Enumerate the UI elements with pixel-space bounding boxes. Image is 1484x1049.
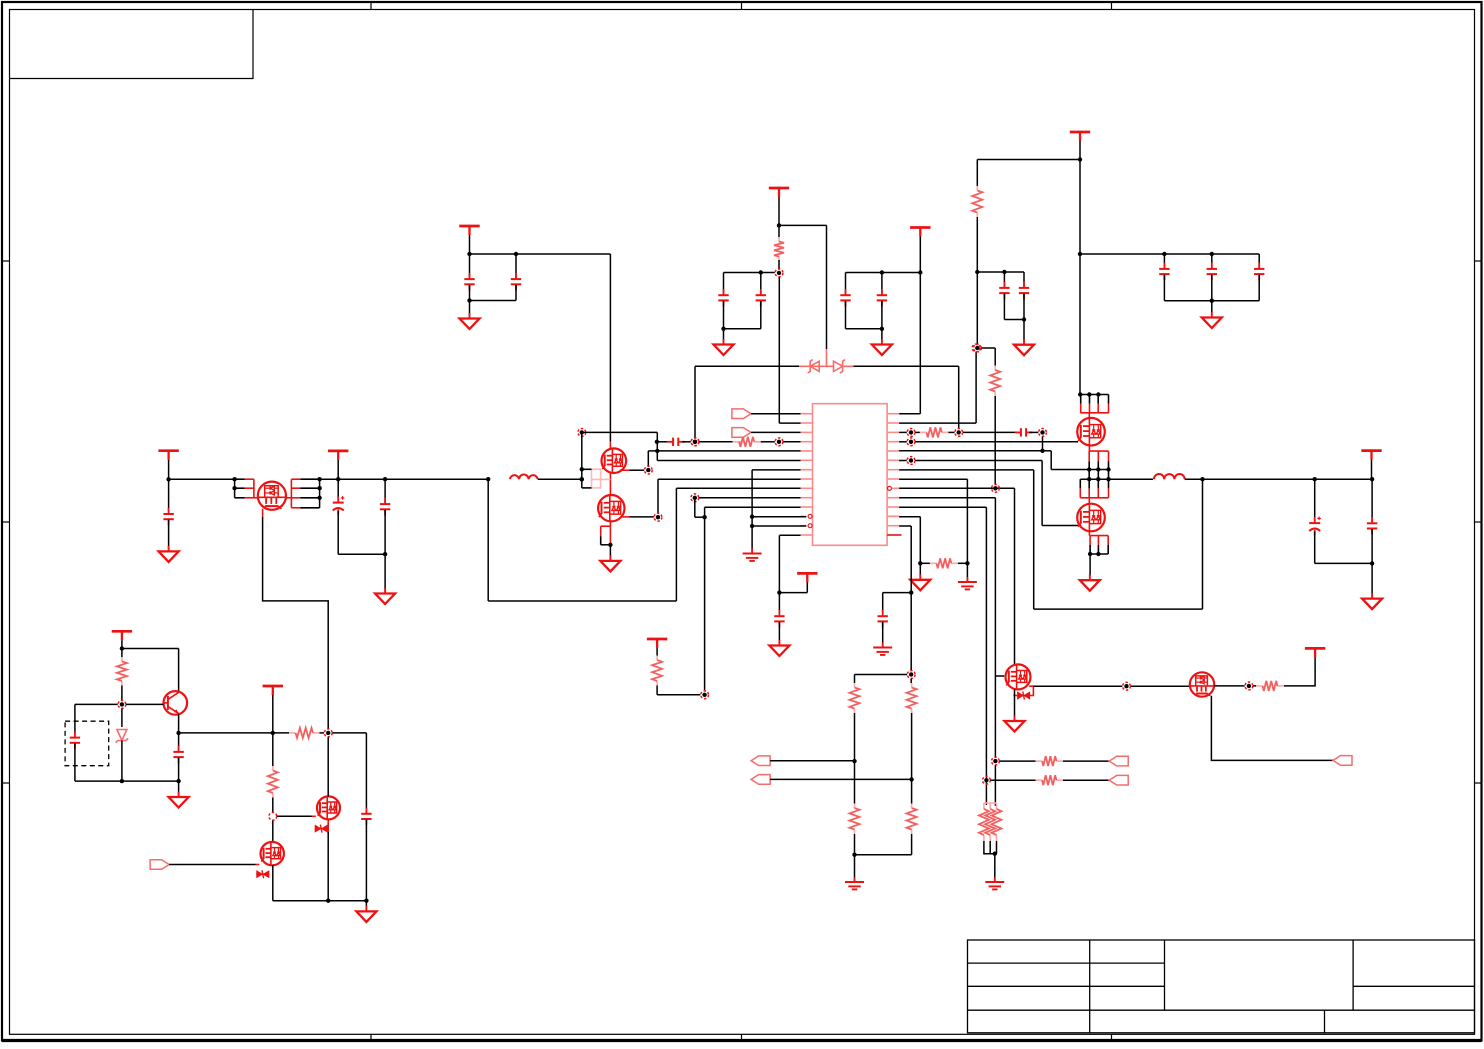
junction xyxy=(975,270,979,274)
resistor R3 xyxy=(994,366,996,371)
stack top tie xyxy=(984,802,997,804)
wire xyxy=(337,511,339,554)
capacitor C16 (polarized) xyxy=(333,496,345,515)
junction xyxy=(1370,477,1374,481)
junction xyxy=(1040,449,1044,453)
wire xyxy=(723,273,725,295)
wire xyxy=(630,469,645,471)
port E xyxy=(1333,756,1352,766)
junction xyxy=(909,590,913,594)
sense pack below Q7 xyxy=(609,521,611,526)
capacitor C1 xyxy=(464,273,474,291)
wire xyxy=(778,260,780,269)
resistor R17 xyxy=(272,766,274,771)
ground xyxy=(600,555,620,571)
capacitor bulk xyxy=(1207,263,1217,281)
wire xyxy=(1371,460,1373,480)
capacitor C15 xyxy=(163,508,173,526)
wire xyxy=(272,865,274,900)
node xyxy=(578,429,586,437)
wire xyxy=(1202,479,1204,609)
node xyxy=(983,776,991,784)
wire xyxy=(469,254,471,279)
op-amp controller IC U1 xyxy=(813,404,888,546)
power symbol VREG xyxy=(910,228,930,237)
junction xyxy=(467,252,471,256)
wire xyxy=(948,431,954,433)
ground xyxy=(375,588,395,604)
junction xyxy=(326,899,330,903)
power symbol VAUX xyxy=(797,573,817,582)
wire xyxy=(958,366,960,428)
IC pin stubs xyxy=(801,413,813,415)
wire xyxy=(1063,779,1109,781)
port D xyxy=(1109,775,1128,785)
power symbol VOUT xyxy=(1361,451,1381,460)
wire xyxy=(899,441,907,443)
wire xyxy=(1284,657,1315,686)
wire xyxy=(470,253,611,255)
junction xyxy=(1162,252,1166,256)
ground xyxy=(1202,312,1222,328)
node xyxy=(644,466,652,474)
wire xyxy=(919,237,921,414)
resistor R13 xyxy=(1036,779,1043,781)
wire xyxy=(1043,450,1052,452)
wire xyxy=(657,479,659,513)
wire pin3 xyxy=(751,431,800,433)
resistor R8 xyxy=(854,683,856,688)
wire xyxy=(601,544,611,546)
wire xyxy=(179,732,273,734)
node xyxy=(701,691,709,699)
wire pin4r to Q1 gate xyxy=(915,441,1078,443)
sense pack below Q1 xyxy=(1088,446,1090,452)
wire pin14 xyxy=(779,534,800,536)
node xyxy=(118,701,126,709)
wire xyxy=(1080,394,1108,396)
junction xyxy=(1096,467,1100,471)
node xyxy=(972,344,980,352)
junction xyxy=(655,449,659,453)
wire xyxy=(1063,760,1109,762)
wire xyxy=(75,703,118,705)
wire xyxy=(1258,275,1260,301)
wire xyxy=(779,224,827,226)
wire xyxy=(168,460,170,511)
wire xyxy=(338,553,385,555)
capacitor C5 xyxy=(840,289,850,307)
junction xyxy=(580,467,584,471)
wire emitter xyxy=(178,714,180,733)
wire xyxy=(779,592,807,594)
wire xyxy=(272,733,274,766)
wire xyxy=(122,648,179,650)
wire xyxy=(783,441,800,443)
power symbol VCC1 xyxy=(459,226,479,235)
junction xyxy=(1078,392,1082,396)
earth ground xyxy=(958,577,977,589)
wire xyxy=(958,562,968,564)
wire xyxy=(966,479,968,563)
wire xyxy=(1004,319,1024,321)
transistor Q6 xyxy=(602,448,627,473)
wire pin6r xyxy=(915,460,1042,462)
junction xyxy=(467,298,471,302)
wire return loop xyxy=(488,600,676,602)
wire xyxy=(365,901,367,908)
wire xyxy=(582,431,658,433)
wire xyxy=(1029,431,1038,433)
junction xyxy=(750,524,754,528)
wire xyxy=(919,517,921,576)
output port A xyxy=(751,756,770,766)
wire xyxy=(761,441,775,443)
junction xyxy=(1078,252,1082,256)
wire xyxy=(778,277,780,423)
wire xyxy=(384,479,386,504)
wire xyxy=(319,479,321,508)
wire xyxy=(337,460,339,479)
wire output rail xyxy=(1185,478,1372,480)
ground xyxy=(159,546,179,562)
wire xyxy=(178,733,180,752)
wire pin13r xyxy=(899,525,911,527)
wire xyxy=(845,301,847,329)
title block xyxy=(968,940,1475,1033)
junction xyxy=(1022,317,1026,321)
wire xyxy=(168,520,170,548)
wire xyxy=(1003,272,1005,288)
wire pin7 xyxy=(752,469,800,471)
capacitor C18 xyxy=(70,731,80,749)
wire xyxy=(469,285,471,301)
wire pin11r xyxy=(899,506,986,508)
node xyxy=(992,757,1000,765)
transistor Q7 xyxy=(598,495,624,521)
wire xyxy=(384,510,386,590)
wire xyxy=(121,741,123,782)
wire xyxy=(515,254,517,279)
power symbol VIN xyxy=(1070,132,1090,141)
junction xyxy=(702,515,706,519)
zener ZD3 xyxy=(256,870,269,878)
wire xyxy=(963,431,1018,433)
wire xyxy=(695,365,799,367)
junction xyxy=(1200,477,1204,481)
wire xyxy=(911,779,913,803)
transistor Q10 xyxy=(261,842,284,865)
wire xyxy=(1023,320,1025,342)
wire xyxy=(854,365,959,367)
resistor R4 xyxy=(733,441,740,443)
wire xyxy=(994,765,996,806)
wire xyxy=(1003,294,1005,320)
transistor Q2 (low side) xyxy=(1077,504,1105,532)
wire xyxy=(656,686,658,695)
wire xyxy=(1371,479,1373,523)
wire xyxy=(999,760,1035,762)
wire xyxy=(699,441,732,443)
wire xyxy=(272,821,274,843)
junction xyxy=(514,252,518,256)
wire xyxy=(1033,685,1122,687)
transistor Q4 xyxy=(1190,672,1214,696)
wire xyxy=(806,578,808,593)
wire xyxy=(1163,254,1165,269)
wire xyxy=(1315,562,1372,564)
node xyxy=(775,438,783,446)
wire xyxy=(994,498,996,757)
wire xyxy=(178,758,180,781)
wire pin5r xyxy=(899,450,1042,452)
junction xyxy=(1106,467,1110,471)
wire pin9 xyxy=(676,487,800,489)
node xyxy=(907,457,915,465)
wire xyxy=(320,732,325,734)
node xyxy=(775,269,783,277)
wire switch node xyxy=(1080,478,1153,480)
wire xyxy=(990,779,1035,781)
wire xyxy=(609,473,611,495)
wire xyxy=(1023,272,1025,288)
wire xyxy=(538,478,582,480)
wire pin2r xyxy=(899,422,976,424)
wire xyxy=(469,235,471,254)
wire to Q2 gate xyxy=(1042,525,1078,527)
node xyxy=(1245,682,1253,690)
ground xyxy=(769,640,789,656)
wire xyxy=(911,713,913,779)
wire switch-node upper xyxy=(1051,469,1108,471)
earth ground xyxy=(845,877,864,889)
junction xyxy=(336,477,340,481)
wire xyxy=(770,760,854,762)
power symbol VG xyxy=(263,686,283,695)
junction xyxy=(608,543,612,547)
capacitor C6 xyxy=(877,289,887,307)
wire xyxy=(630,516,654,518)
wire xyxy=(826,225,828,349)
resistor R15 xyxy=(121,657,123,662)
node xyxy=(992,484,1000,492)
wire xyxy=(1371,529,1373,594)
wire xyxy=(515,285,517,301)
wire Q9 drain xyxy=(327,737,329,796)
wire xyxy=(1314,532,1316,564)
input port 1 xyxy=(732,409,751,419)
wire pin1 xyxy=(751,413,800,415)
node xyxy=(269,812,277,820)
earth ground xyxy=(985,877,1004,889)
wire xyxy=(647,451,649,466)
wire xyxy=(1163,275,1165,301)
junction xyxy=(880,327,884,331)
junction xyxy=(1210,252,1214,256)
junction xyxy=(1313,477,1317,481)
thick bottom border xyxy=(2,1039,1482,1042)
wire xyxy=(910,679,912,683)
transistor Q3 xyxy=(1006,664,1031,689)
capacitor C11 xyxy=(1015,428,1033,436)
wire xyxy=(657,441,669,443)
wire pin12r xyxy=(899,516,920,518)
node xyxy=(1123,682,1131,690)
junction xyxy=(880,270,884,274)
wire xyxy=(365,733,367,810)
wire xyxy=(1258,254,1260,269)
node xyxy=(907,438,915,446)
wire xyxy=(760,273,762,295)
wire bulk caps rail xyxy=(1080,253,1259,255)
resistor R1 xyxy=(778,237,780,242)
wire xyxy=(1050,451,1052,470)
Q7 source lead xyxy=(623,516,630,518)
wire xyxy=(657,694,700,696)
junction xyxy=(166,477,170,481)
wire xyxy=(882,593,884,613)
junction xyxy=(1087,467,1091,471)
input port 2 xyxy=(732,428,751,438)
wire xyxy=(277,815,312,817)
wire xyxy=(365,820,367,901)
capacitor C7 xyxy=(999,282,1009,300)
Q3 source link xyxy=(1029,686,1033,695)
wire xyxy=(854,761,856,803)
transistor Q9 xyxy=(317,796,340,819)
wire xyxy=(881,301,883,329)
wire xyxy=(169,478,235,480)
junction xyxy=(1106,477,1110,481)
border zone ticks xyxy=(370,2,372,10)
junction xyxy=(486,477,490,481)
wire input rail xyxy=(320,478,489,480)
wire xyxy=(855,674,908,676)
capacitor C3 xyxy=(718,289,728,307)
wire pin8r xyxy=(899,478,967,480)
Q9 source lead xyxy=(327,819,329,832)
capacitor bulk xyxy=(1159,263,1169,281)
junction xyxy=(232,477,236,481)
wire xyxy=(911,834,913,855)
earth ground xyxy=(743,549,762,561)
wire xyxy=(854,855,856,878)
wire pin10r xyxy=(899,497,995,499)
wire xyxy=(778,197,780,237)
wire xyxy=(178,781,180,793)
node xyxy=(691,438,699,446)
ground xyxy=(910,574,930,590)
wire xyxy=(1014,689,1016,717)
wire pin10 xyxy=(699,497,801,499)
earth ground xyxy=(873,643,892,655)
wire pin5 xyxy=(648,450,800,452)
capacitor C12 xyxy=(878,610,888,628)
wire pin1 right xyxy=(899,413,920,415)
zener ZD2 xyxy=(315,825,328,833)
wire xyxy=(976,160,978,187)
wire pin12 xyxy=(752,516,806,518)
junction xyxy=(271,731,275,735)
wire xyxy=(272,695,274,733)
switch node stubs xyxy=(1088,470,1090,480)
wire xyxy=(273,732,289,734)
faded sense pack xyxy=(592,469,601,488)
wire xyxy=(656,432,658,460)
wire xyxy=(1090,553,1108,555)
power symbol VP xyxy=(1305,648,1325,657)
capacitor C9 xyxy=(667,438,685,446)
resistor R10 xyxy=(854,804,856,809)
wire xyxy=(169,864,255,866)
wire xyxy=(977,159,1080,161)
capacitor C20 xyxy=(361,808,371,826)
wire xyxy=(994,854,996,878)
wire xyxy=(694,366,696,437)
wire xyxy=(272,798,274,813)
wire xyxy=(855,854,912,856)
wire to pin 2 xyxy=(779,422,800,424)
wire xyxy=(332,732,366,734)
ground xyxy=(1362,593,1382,609)
transistor Q1 (high side) xyxy=(1077,418,1105,446)
wire xyxy=(609,545,611,557)
junction xyxy=(1096,392,1100,396)
wire xyxy=(883,592,912,594)
capacitor C2 xyxy=(511,273,521,291)
transistor Q5 (input PFET) xyxy=(258,482,286,510)
ground xyxy=(1005,716,1025,732)
wire xyxy=(846,272,921,274)
junction xyxy=(993,852,997,856)
wire xyxy=(910,526,912,670)
junction xyxy=(580,477,584,481)
junction xyxy=(1088,552,1092,556)
ground xyxy=(460,313,480,329)
wire xyxy=(327,832,329,901)
transistor Q8 (NPN) xyxy=(164,691,188,715)
wire xyxy=(846,328,882,330)
wire xyxy=(675,488,677,601)
wire xyxy=(75,780,122,782)
junction xyxy=(759,270,763,274)
junction xyxy=(317,486,321,490)
node xyxy=(955,429,963,437)
wire xyxy=(976,217,978,344)
wire xyxy=(899,460,907,462)
junction xyxy=(777,590,781,594)
wire xyxy=(984,841,995,854)
wire xyxy=(723,301,725,329)
wire xyxy=(881,273,883,295)
notes box top-left xyxy=(10,10,254,79)
wire xyxy=(609,254,611,442)
wire base xyxy=(126,703,164,705)
output port B xyxy=(751,775,770,785)
wire xyxy=(985,507,987,805)
sense pack below Q2 xyxy=(1088,531,1090,535)
junction xyxy=(852,759,856,763)
wire xyxy=(1211,275,1213,301)
junction xyxy=(1002,270,1006,274)
wire xyxy=(1079,141,1081,395)
wire xyxy=(121,640,123,657)
fuse pack right of Q5 xyxy=(286,497,291,499)
junction xyxy=(383,552,387,556)
node xyxy=(907,429,915,437)
wire xyxy=(751,470,753,549)
power symbol VB xyxy=(112,631,132,640)
